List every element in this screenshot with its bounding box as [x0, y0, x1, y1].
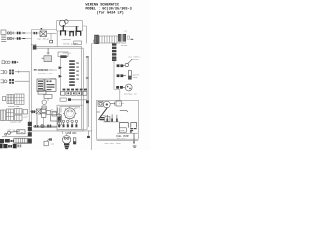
svg-text:PUMP: PUMP	[120, 129, 126, 132]
svg-text:TEMP: TEMP	[133, 76, 139, 79]
svg-text:FL: FL	[51, 108, 54, 111]
svg-text:V.SW: V.SW	[119, 102, 125, 105]
svg-text:ST.ON: ST.ON	[17, 131, 24, 134]
svg-text:GAS KIT: GAS KIT	[117, 137, 126, 140]
svg-text:METER: METER	[121, 44, 128, 47]
svg-text:BAT.RELAY: BAT.RELAY	[38, 38, 51, 41]
svg-text:NEUTRAL SW: NEUTRAL SW	[124, 92, 137, 95]
svg-text:CONNECTOR: CONNECTOR	[8, 105, 20, 108]
svg-text:METER: METER	[50, 77, 57, 80]
svg-text:STARTER: STARTER	[62, 38, 72, 41]
svg-text:FUSE: FUSE	[31, 43, 37, 46]
svg-text:FUSIBLE LINK: FUSIBLE LINK	[38, 72, 53, 75]
svg-text:FUSE BOX: FUSE BOX	[66, 132, 78, 135]
svg-text:LAMP: LAMP	[23, 115, 29, 118]
svg-text:SWITCH: SWITCH	[131, 58, 139, 61]
svg-text:FOR UNIT TANK: FOR UNIT TANK	[105, 142, 122, 145]
svg-text:CONNECTOR: CONNECTOR	[10, 121, 22, 124]
svg-text:KEY SW: KEY SW	[8, 128, 16, 131]
svg-text:CON: CON	[51, 142, 55, 145]
svg-text:(for G424 LP): (for G424 LP)	[97, 10, 124, 15]
svg-text:GOV.: GOV.	[103, 114, 108, 117]
svg-text:DIST.: DIST.	[75, 106, 81, 109]
svg-text:12V: 12V	[124, 30, 128, 33]
